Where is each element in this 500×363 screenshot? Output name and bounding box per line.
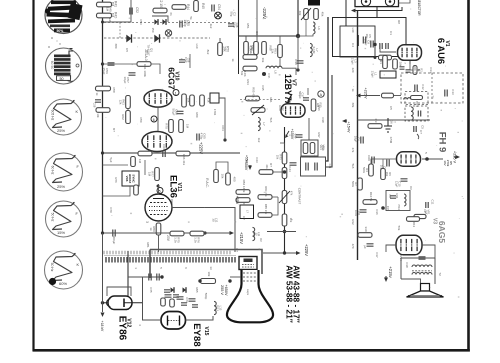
wire row y233 — [104, 232, 205, 234]
capacitor C13 — [445, 89, 455, 96]
svg-text:28k: 28k — [222, 46, 226, 52]
capacitor C30 — [294, 59, 304, 65]
label CONTRAST — [298, 188, 302, 205]
svg-text:R31: R31 — [269, 97, 273, 103]
label V11 — [176, 183, 182, 192]
svg-text:13µH: 13µH — [371, 71, 375, 78]
wire eh90 right — [422, 157, 443, 161]
svg-text:5: 5 — [159, 189, 161, 193]
capacitor C28 — [228, 22, 239, 28]
capacitor C60b — [367, 155, 374, 163]
cluster diodes — [165, 287, 187, 299]
tuner box — [355, 0, 399, 7]
svg-text:L7: L7 — [262, 122, 266, 126]
wire ey88 right — [186, 316, 214, 320]
svg-text:+55V: +55V — [245, 155, 249, 164]
node circled plus — [215, 12, 222, 19]
svg-text:C?: C? — [235, 248, 239, 252]
diode D1 — [126, 34, 131, 42]
diode D2 — [154, 34, 159, 42]
label 6CG7 big — [167, 67, 177, 90]
svg-text:47k: 47k — [290, 191, 294, 196]
label +450V — [244, 160, 248, 171]
resistor R88 — [170, 231, 184, 243]
svg-text:100k: 100k — [354, 210, 358, 217]
svg-text:41k: 41k — [265, 164, 269, 169]
resistor R68 — [200, 95, 211, 106]
scope photo 5 (waveform) — [46, 201, 82, 237]
label AW 53-88 — [285, 265, 295, 322]
svg-text:300µF: 300µF — [112, 236, 116, 245]
svg-text:3.3k: 3.3k — [194, 237, 198, 243]
svg-text:15pF: 15pF — [364, 39, 368, 46]
resistor R57 pair — [250, 42, 273, 55]
coil L7 — [310, 43, 319, 56]
pot VR5 chain — [279, 191, 294, 204]
wire r53 — [279, 36, 281, 67]
svg-text:6 AU6: 6 AU6 — [436, 38, 447, 64]
svg-text:T1: T1 — [431, 95, 435, 99]
svg-text:EY86: EY86 — [117, 316, 128, 341]
small value labels — [106, 6, 443, 303]
resistor R55 — [240, 87, 280, 101]
wire yoke bottom — [127, 251, 129, 310]
svg-text:39k: 39k — [249, 49, 253, 54]
svg-text:220: 220 — [351, 68, 355, 73]
wire 298 down — [297, 36, 299, 70]
svg-text:C44: C44 — [288, 166, 292, 172]
svg-text:50: 50 — [60, 77, 64, 81]
svg-text:R2b: R2b — [413, 65, 417, 71]
label V1 — [444, 40, 450, 46]
wire l6 — [298, 20, 313, 36]
svg-text:C18: C18 — [405, 262, 409, 268]
label +225V crt — [304, 244, 309, 256]
svg-text:R10 5k: R10 5k — [369, 192, 373, 202]
svg-text:C4: C4 — [351, 43, 355, 47]
svg-text:5k6: 5k6 — [351, 164, 355, 169]
capacitor C55 — [180, 19, 190, 27]
diode X1 pair — [154, 19, 166, 25]
svg-text:1M: 1M — [424, 210, 428, 214]
small parts ey88 — [161, 290, 198, 307]
svg-text:R?: R? — [269, 163, 273, 167]
resistor R2 — [393, 59, 403, 69]
svg-text:10µF: 10µF — [123, 77, 127, 84]
capacitor C81 — [157, 274, 159, 281]
speaker — [401, 279, 444, 297]
svg-text:L?: L? — [246, 210, 250, 214]
svg-text:560k: 560k — [351, 181, 355, 188]
svg-text:C43: C43 — [255, 157, 259, 163]
node pin1 — [173, 90, 179, 96]
node pp2 — [381, 206, 390, 210]
svg-text:C58: C58 — [93, 103, 97, 108]
capacitor C65 — [197, 133, 207, 141]
svg-text:60%: 60% — [59, 281, 67, 286]
svg-text:680: 680 — [114, 44, 118, 49]
svg-text:C60: C60 — [367, 155, 371, 161]
svg-text:R81: R81 — [146, 242, 150, 248]
svg-text:150: 150 — [151, 28, 155, 33]
resistor R35 — [311, 99, 322, 111]
label 3 pins — [145, 221, 149, 223]
capacitor C9 — [364, 39, 374, 48]
pot VR2 — [251, 105, 265, 115]
svg-text:+18 kV: +18 kV — [100, 321, 104, 332]
svg-text:50µ: 50µ — [230, 12, 234, 17]
capacitor C80 — [149, 274, 151, 281]
svg-text:C58: C58 — [112, 87, 116, 93]
resistor R57 — [240, 66, 257, 77]
svg-text:180p: 180p — [183, 19, 187, 26]
svg-text:P.P: P.P — [386, 206, 390, 210]
label EY86 — [117, 316, 128, 341]
svg-text:1M: 1M — [106, 7, 110, 12]
tube V10a — [144, 90, 172, 107]
tube V12 EY86 — [101, 296, 142, 310]
svg-text:R11: R11 — [395, 193, 399, 198]
resistor R85b — [258, 186, 272, 199]
svg-text:+215v: +215v — [388, 266, 393, 278]
capacitor C52 — [130, 7, 139, 14]
svg-text:15µF: 15µF — [184, 57, 187, 63]
svg-text:50%: 50% — [57, 29, 64, 33]
svg-text:0.5: 0.5 — [125, 48, 129, 52]
capacitor C6 — [354, 136, 364, 144]
svg-text:C17: C17 — [375, 252, 379, 258]
strip line — [104, 255, 236, 257]
label 3.2V — [395, 157, 399, 163]
label 300 — [207, 272, 211, 277]
svg-text:FH 9: FH 9 — [437, 132, 448, 153]
svg-text:470p: 470p — [200, 133, 204, 140]
svg-text:C59: C59 — [139, 117, 143, 123]
svg-text:7013: 7013 — [415, 101, 419, 108]
svg-text:0V: 0V — [259, 238, 263, 242]
wire shield box inner — [340, 26, 375, 57]
antenna C5 — [351, 34, 372, 65]
resistor R44 — [172, 4, 190, 10]
svg-text:400: 400 — [233, 176, 237, 181]
svg-text:R3: R3 — [374, 119, 378, 123]
svg-text:AW 53-88 - 21″: AW 53-88 - 21″ — [285, 265, 295, 322]
resistor R64 — [182, 94, 194, 107]
component L1700 box — [240, 205, 254, 219]
svg-text:30: 30 — [212, 218, 216, 222]
svg-text:EL36: EL36 — [168, 175, 179, 198]
svg-text:0.1M: 0.1M — [312, 47, 316, 54]
label V12 — [126, 318, 132, 327]
coil L11 — [253, 227, 262, 240]
coil L8 — [266, 66, 282, 74]
svg-text:R34: R34 — [246, 79, 250, 85]
svg-text:R66 41k: R66 41k — [182, 154, 186, 166]
svg-text:5µF: 5µF — [109, 157, 113, 162]
capacitor C56 — [102, 63, 115, 75]
resistor R62 — [121, 111, 130, 124]
resistor R65 — [138, 151, 152, 156]
wire bus x346 — [345, 0, 347, 26]
capacitor C54 — [212, 4, 221, 11]
coil L6 — [313, 22, 321, 34]
svg-text:6AG5: 6AG5 — [437, 221, 447, 243]
scope photo 2 (coil) — [46, 48, 82, 84]
svg-text:33k: 33k — [271, 49, 275, 54]
svg-text:60 50: 60 50 — [50, 61, 54, 70]
svg-text:R14: R14 — [399, 255, 403, 261]
svg-text:V3: V3 — [432, 218, 438, 224]
yoke box — [150, 250, 262, 279]
coil box B 7013 — [405, 101, 428, 121]
wire row y153 — [103, 152, 241, 154]
svg-text:1k: 1k — [149, 227, 153, 231]
label 12BY7A — [283, 74, 293, 108]
pot VR6 block — [122, 171, 139, 186]
svg-text:K2 150: K2 150 — [159, 0, 163, 9]
wire r50 — [220, 36, 246, 42]
resistor R7 — [351, 178, 362, 190]
svg-text:V15: V15 — [203, 327, 209, 336]
tube V1 6AU6 — [398, 45, 422, 61]
svg-text:25%: 25% — [57, 128, 65, 133]
svg-text:C41: C41 — [328, 164, 332, 169]
label Q1 — [147, 30, 172, 56]
svg-text:0.5M: 0.5M — [389, 137, 393, 144]
coil L7b — [258, 117, 266, 130]
svg-text:12k: 12k — [119, 100, 123, 105]
transformer T2 — [401, 257, 442, 284]
label +150V — [285, 129, 294, 140]
resistor R3 — [368, 119, 382, 129]
resistor R89 — [190, 231, 204, 243]
svg-text:C?: C? — [242, 216, 246, 220]
label AW 43-88 — [292, 265, 302, 322]
svg-text:R95: R95 — [195, 287, 199, 293]
wire el36 down — [158, 235, 160, 252]
label SELECTOR — [417, 0, 421, 16]
resistor R50 — [218, 43, 230, 56]
capacitor C57 — [123, 73, 136, 84]
scope photo 1 (dark) — [45, 0, 83, 48]
resistor R1 — [379, 56, 387, 69]
wire ey88 left — [138, 277, 161, 326]
wire l8 — [282, 68, 296, 75]
scope photo 6 (waveform) — [45, 251, 83, 289]
svg-text:3.3k: 3.3k — [174, 237, 178, 243]
wire v10 right — [219, 98, 225, 140]
svg-text:C?: C? — [419, 130, 423, 134]
resistor R80 — [149, 223, 161, 235]
resistor R74x — [282, 168, 287, 179]
svg-text:45k: 45k — [321, 12, 325, 17]
wire ey88 top — [128, 276, 162, 278]
wire right bus top x377 — [376, 7, 378, 18]
wire x284 chain — [284, 127, 286, 253]
junction dots row233 — [101, 231, 207, 234]
wire shield box outer — [333, 18, 407, 57]
resistor R47L — [95, 86, 111, 96]
svg-text:ZELA-0: ZELA-0 — [144, 49, 148, 60]
svg-text:R84 160k: R84 160k — [242, 180, 246, 193]
svg-text:13µH: 13µH — [351, 58, 355, 65]
wire y120 — [358, 119, 431, 121]
label 6AU6 — [436, 38, 447, 64]
tube V3 6AG5 — [396, 235, 422, 255]
terminal strip row2 — [106, 257, 235, 263]
wire el36 plate — [158, 184, 160, 194]
svg-text:15µF: 15µF — [102, 68, 106, 75]
svg-text:56k: 56k — [397, 226, 401, 231]
symbol T36 — [384, 118, 397, 132]
svg-text:330: 330 — [364, 226, 368, 231]
capacitor C11 — [426, 200, 435, 208]
wire x257 top — [256, 0, 258, 41]
svg-text:7013: 7013 — [216, 305, 220, 312]
wire eh90 misc — [371, 159, 396, 168]
svg-text:L10: L10 — [195, 44, 199, 49]
svg-text:C70: C70 — [109, 207, 113, 213]
wire left main bus — [102, 0, 104, 233]
coil box A — [405, 92, 435, 105]
label RAC — [205, 178, 209, 188]
svg-text:30k: 30k — [207, 272, 211, 277]
svg-text:R?: R? — [112, 128, 116, 132]
capacitor Cpf — [363, 244, 374, 249]
wire k2 — [152, 16, 168, 22]
wire row2 dashed — [104, 23, 236, 39]
svg-text:+215V: +215V — [239, 232, 244, 244]
node circ5 — [157, 188, 163, 194]
wire bus x238 — [238, 0, 240, 36]
svg-text:R84 21k: R84 21k — [264, 186, 268, 197]
tube V11 EL36 — [145, 194, 172, 221]
resistor R61 — [137, 62, 151, 78]
label V15 — [203, 327, 209, 336]
tube V10b — [142, 132, 172, 152]
svg-text:12pF: 12pF — [395, 181, 399, 188]
svg-text:C30: C30 — [294, 59, 298, 65]
svg-text:R8: R8 — [397, 20, 401, 24]
svg-text:R62: R62 — [121, 114, 125, 120]
wire box -225V — [239, 0, 299, 36]
resistor R82 — [214, 170, 225, 183]
resistor R70 — [165, 120, 174, 133]
svg-text:C38: C38 — [321, 117, 325, 123]
wire rac — [216, 162, 228, 173]
svg-text:C64: C64 — [221, 125, 225, 131]
svg-text:L6: L6 — [317, 26, 321, 30]
resistor K2 — [153, 0, 167, 13]
svg-text:1M: 1M — [110, 13, 114, 18]
label +650V — [220, 284, 228, 296]
dashed box C12 — [401, 73, 463, 103]
wire mid bus b — [326, 75, 332, 167]
svg-text:25%: 25% — [57, 184, 65, 189]
label V7 — [291, 79, 297, 86]
node circled A — [318, 91, 324, 97]
capacitor C5b — [414, 125, 425, 139]
pin5 label — [424, 152, 428, 154]
svg-text:R45: R45 — [201, 3, 205, 9]
svg-text:1M: 1M — [108, 18, 112, 23]
label EH90 — [437, 132, 448, 153]
svg-text:255 V: 255 V — [220, 285, 224, 295]
svg-text:R36: R36 — [317, 105, 321, 111]
svg-text:R51: R51 — [246, 23, 250, 29]
pot box VR3 VR4 — [301, 140, 326, 156]
label EY88 — [191, 323, 202, 347]
svg-text:27k: 27k — [351, 148, 355, 153]
junction dots misc — [101, 21, 377, 188]
terminal strip row1 — [104, 251, 230, 254]
wire stub y165 — [103, 160, 146, 175]
label 20V — [166, 235, 170, 242]
label +55V — [235, 196, 239, 205]
resistor R66 — [176, 151, 190, 165]
svg-text:+154V: +154V — [347, 121, 351, 133]
svg-text:1M: 1M — [186, 124, 190, 129]
component L1 coil — [371, 71, 396, 78]
label -225V — [262, 7, 267, 20]
capacitor C10 — [395, 179, 408, 188]
wire vr34 — [280, 143, 285, 150]
svg-text:470: 470 — [351, 244, 355, 249]
svg-text:1M: 1M — [148, 172, 152, 177]
label 6AG5 — [437, 221, 447, 243]
svg-text:C77: C77 — [185, 297, 189, 303]
node pin6 — [151, 116, 157, 122]
label R5 270k — [443, 160, 453, 167]
CRT neck connector — [239, 257, 257, 270]
wire spk — [0, 0, 1, 1]
svg-text:15%: 15% — [57, 230, 65, 235]
svg-text:1702: 1702 — [213, 109, 217, 116]
svg-text:1: 1 — [175, 91, 177, 95]
svg-text:3: 3 — [145, 221, 149, 223]
wire r61 — [103, 64, 161, 74]
cap box lower — [301, 157, 333, 176]
svg-text:R69: R69 — [195, 112, 199, 118]
svg-text:180p: 180p — [232, 22, 236, 28]
svg-text:+225V: +225V — [364, 87, 368, 99]
resistor R56 — [243, 49, 257, 59]
resistor R30 — [0, 0, 1, 1]
svg-text:1M: 1M — [138, 159, 142, 164]
wire ey86 top — [107, 287, 131, 296]
arrow +225V r — [453, 151, 461, 164]
svg-text:C61: C61 — [162, 144, 166, 150]
capacitor C58L — [93, 100, 102, 108]
resistor R45 — [194, 1, 205, 12]
svg-text:R61 100k: R61 100k — [143, 64, 147, 77]
svg-text:+150V: +150V — [290, 129, 294, 140]
capacitor C300 — [112, 230, 116, 245]
wire mid bus a — [326, 17, 328, 161]
scope photo 4 (waveform) — [45, 153, 83, 191]
wire v1 bottom — [410, 61, 420, 70]
svg-text:T2: T2 — [438, 272, 442, 276]
label +18kV — [100, 233, 105, 332]
svg-text:C13: C13 — [451, 89, 455, 95]
tube V2 EH90 — [397, 152, 421, 166]
svg-text:R70: R70 — [165, 123, 169, 129]
svg-text:10k: 10k — [96, 113, 100, 118]
resistor R41 — [97, 1, 118, 7]
svg-text:R1: R1 — [379, 60, 383, 64]
svg-text:500pF: 500pF — [298, 91, 302, 99]
resistor R42 — [97, 12, 118, 18]
